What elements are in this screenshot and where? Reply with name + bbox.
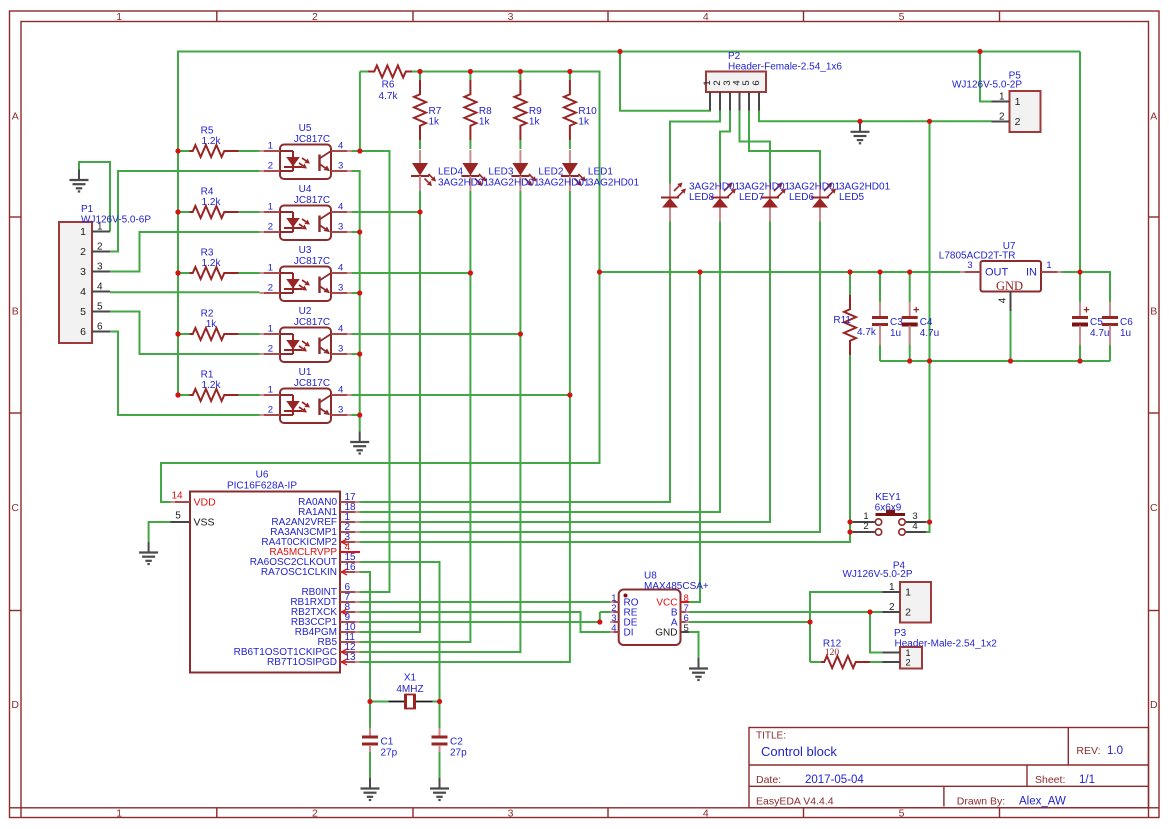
svg-text:REV:: REV:: [1076, 745, 1100, 757]
svg-text:1k: 1k: [578, 117, 590, 128]
svg-text:RA7OSC1CLKIN: RA7OSC1CLKIN: [261, 567, 337, 578]
svg-text:R4: R4: [201, 187, 214, 198]
svg-text:TITLE:: TITLE:: [756, 731, 786, 742]
svg-text:DI: DI: [624, 628, 634, 639]
svg-text:U6: U6: [256, 470, 269, 481]
svg-text:A: A: [12, 111, 19, 123]
svg-text:1: 1: [268, 263, 273, 274]
svg-text:U5: U5: [299, 123, 312, 134]
svg-text:R1: R1: [201, 370, 214, 381]
svg-text:5: 5: [684, 623, 689, 634]
svg-text:WJ126V-5.0-2P: WJ126V-5.0-2P: [952, 80, 1022, 91]
svg-text:1/1: 1/1: [1079, 774, 1095, 786]
svg-text:U4: U4: [299, 184, 312, 195]
svg-text:4: 4: [338, 263, 343, 274]
svg-text:2: 2: [905, 658, 910, 669]
svg-text:1k: 1k: [479, 117, 491, 128]
svg-text:VSS: VSS: [194, 517, 215, 529]
svg-text:JC817C: JC817C: [294, 317, 330, 328]
svg-text:3: 3: [97, 262, 103, 273]
svg-text:P2: P2: [728, 51, 741, 62]
svg-text:3AG2HD01: 3AG2HD01: [789, 182, 841, 193]
svg-text:MAX485CSA+: MAX485CSA+: [644, 581, 709, 592]
svg-text:B: B: [12, 306, 19, 318]
svg-text:R5: R5: [201, 126, 214, 137]
svg-text:4.7u: 4.7u: [1090, 328, 1109, 339]
svg-text:4MHZ: 4MHZ: [396, 684, 423, 695]
svg-text:1.2k: 1.2k: [202, 258, 222, 269]
svg-text:4: 4: [338, 385, 343, 396]
svg-text:X1: X1: [404, 673, 417, 684]
svg-text:P3: P3: [894, 628, 907, 639]
svg-text:1k: 1k: [429, 117, 441, 128]
svg-text:LED3: LED3: [488, 167, 513, 178]
svg-text:1u: 1u: [1120, 328, 1131, 339]
svg-text:5: 5: [80, 306, 86, 318]
svg-text:6: 6: [751, 80, 762, 85]
svg-text:2017-05-04: 2017-05-04: [805, 774, 864, 786]
svg-text:2: 2: [312, 807, 318, 819]
svg-text:C3: C3: [890, 317, 903, 328]
svg-text:LED7: LED7: [739, 192, 764, 203]
svg-text:1: 1: [268, 324, 273, 335]
svg-text:4.7k: 4.7k: [379, 91, 399, 102]
svg-text:3AG2HD01: 3AG2HD01: [839, 182, 891, 193]
svg-text:5: 5: [899, 11, 905, 23]
svg-text:Header-Female-2.54_1x6: Header-Female-2.54_1x6: [728, 62, 842, 73]
svg-text:GND: GND: [996, 279, 1023, 293]
svg-text:JC817C: JC817C: [294, 195, 330, 206]
svg-text:R11: R11: [833, 315, 851, 326]
svg-text:B: B: [1150, 306, 1157, 318]
svg-text:1.0: 1.0: [1107, 745, 1123, 757]
svg-text:3AG2HD01: 3AG2HD01: [438, 178, 490, 189]
svg-text:WJ126V-5.0-2P: WJ126V-5.0-2P: [842, 569, 912, 580]
svg-text:3: 3: [508, 807, 514, 819]
svg-text:120: 120: [825, 648, 840, 658]
svg-text:4: 4: [611, 623, 616, 634]
svg-text:D: D: [1150, 699, 1158, 711]
svg-text:2: 2: [863, 521, 868, 532]
svg-text:1: 1: [268, 385, 273, 396]
svg-text:JC817C: JC817C: [294, 256, 330, 267]
svg-text:1k: 1k: [529, 117, 541, 128]
svg-text:6x6x9: 6x6x9: [875, 503, 902, 514]
svg-text:U3: U3: [299, 245, 312, 256]
svg-text:3AG2HD01: 3AG2HD01: [488, 178, 540, 189]
svg-text:6: 6: [80, 326, 86, 338]
svg-text:Header-Male-2.54_1x2: Header-Male-2.54_1x2: [895, 639, 998, 650]
svg-text:14: 14: [171, 491, 183, 502]
svg-text:2: 2: [1015, 116, 1021, 128]
svg-text:1.2k: 1.2k: [202, 197, 222, 208]
svg-text:1.2k: 1.2k: [202, 136, 222, 147]
svg-text:VDD: VDD: [194, 497, 217, 509]
svg-text:1: 1: [268, 141, 273, 152]
svg-text:R10: R10: [578, 106, 597, 117]
svg-text:1: 1: [116, 11, 122, 23]
svg-text:3: 3: [338, 344, 343, 355]
svg-text:1: 1: [889, 582, 895, 593]
svg-text:C2: C2: [450, 737, 463, 748]
svg-text:U2: U2: [299, 306, 312, 317]
svg-text:1: 1: [1015, 96, 1021, 108]
svg-text:1: 1: [80, 226, 86, 238]
svg-text:GND: GND: [655, 628, 677, 639]
svg-text:LED2: LED2: [538, 167, 563, 178]
svg-text:L7805ACD2T-TR: L7805ACD2T-TR: [939, 251, 1016, 262]
svg-text:LED5: LED5: [839, 192, 864, 203]
svg-text:4: 4: [703, 11, 709, 23]
svg-text:2: 2: [268, 344, 273, 355]
svg-text:4: 4: [338, 202, 343, 213]
svg-text:2: 2: [268, 283, 273, 294]
svg-text:LED6: LED6: [789, 192, 814, 203]
svg-text:P1: P1: [81, 204, 94, 215]
svg-text:C5: C5: [1090, 317, 1103, 328]
svg-text:LED1: LED1: [588, 167, 613, 178]
svg-text:4: 4: [998, 297, 1009, 303]
svg-text:C4: C4: [920, 317, 933, 328]
svg-text:Drawn By:: Drawn By:: [957, 796, 1005, 808]
svg-text:1u: 1u: [890, 328, 901, 339]
svg-text:D: D: [11, 699, 19, 711]
svg-text:R8: R8: [479, 106, 492, 117]
svg-text:2: 2: [97, 242, 103, 253]
svg-text:U8: U8: [644, 571, 657, 582]
svg-text:3AG2HD01: 3AG2HD01: [739, 182, 791, 193]
svg-text:JC817C: JC817C: [294, 134, 330, 145]
svg-text:2: 2: [905, 607, 911, 619]
svg-text:C1: C1: [381, 737, 394, 748]
svg-text:U1: U1: [299, 367, 312, 378]
svg-text:2: 2: [268, 161, 273, 172]
svg-text:1: 1: [1046, 260, 1051, 271]
svg-text:IN: IN: [1026, 267, 1037, 279]
svg-text:OUT: OUT: [985, 267, 1009, 279]
svg-text:4.7k: 4.7k: [857, 327, 877, 338]
svg-text:R3: R3: [201, 248, 214, 259]
svg-text:3AG2HD01: 3AG2HD01: [538, 178, 590, 189]
svg-text:6: 6: [97, 322, 103, 333]
svg-text:1.2k: 1.2k: [202, 380, 222, 391]
svg-text:3: 3: [967, 260, 972, 271]
svg-text:5: 5: [899, 807, 905, 819]
svg-text:R6: R6: [382, 80, 395, 91]
svg-text:R2: R2: [201, 309, 214, 320]
svg-text:2: 2: [889, 602, 895, 613]
svg-text:C: C: [11, 502, 19, 514]
svg-text:3: 3: [508, 11, 514, 23]
svg-text:C: C: [1150, 502, 1158, 514]
svg-text:4: 4: [97, 282, 103, 293]
svg-text:1: 1: [905, 587, 911, 599]
svg-text:A: A: [1150, 111, 1157, 123]
svg-text:3: 3: [338, 283, 343, 294]
svg-text:4: 4: [80, 286, 86, 298]
svg-text:4: 4: [338, 141, 343, 152]
svg-text:4: 4: [338, 324, 343, 335]
svg-text:1k: 1k: [206, 319, 218, 330]
svg-text:4: 4: [703, 807, 709, 819]
svg-text:2: 2: [268, 405, 273, 416]
svg-text:1: 1: [116, 807, 122, 819]
svg-text:PIC16F628A-IP: PIC16F628A-IP: [227, 481, 297, 492]
svg-text:+: +: [1083, 305, 1089, 317]
svg-text:13: 13: [345, 652, 357, 663]
svg-text:16: 16: [345, 562, 357, 573]
svg-text:LED4: LED4: [438, 167, 463, 178]
svg-text:2: 2: [999, 112, 1005, 123]
svg-text:Date:: Date:: [756, 774, 781, 786]
svg-text:2: 2: [268, 222, 273, 233]
svg-text:Control block: Control block: [761, 744, 837, 759]
svg-text:27p: 27p: [381, 748, 398, 759]
svg-text:LED8: LED8: [689, 192, 714, 203]
svg-text:C6: C6: [1120, 317, 1133, 328]
svg-text:5: 5: [97, 302, 103, 313]
svg-text:1: 1: [268, 202, 273, 213]
svg-text:1: 1: [999, 92, 1005, 103]
svg-text:4: 4: [912, 521, 917, 532]
svg-text:+: +: [913, 305, 919, 317]
svg-text:3AG2HD01: 3AG2HD01: [689, 182, 741, 193]
svg-text:JC817C: JC817C: [294, 378, 330, 389]
svg-text:Sheet:: Sheet:: [1035, 774, 1065, 786]
svg-text:Alex_AW: Alex_AW: [1019, 796, 1066, 808]
svg-text:4.7u: 4.7u: [920, 328, 939, 339]
svg-text:R7: R7: [429, 106, 442, 117]
svg-text:5: 5: [175, 511, 181, 522]
svg-text:R9: R9: [529, 106, 542, 117]
svg-text:3: 3: [338, 161, 343, 172]
svg-text:WJ126V-5.0-6P: WJ126V-5.0-6P: [81, 215, 151, 226]
svg-text:RB7T1OSIPGD: RB7T1OSIPGD: [267, 657, 337, 668]
svg-text:3AG2HD01: 3AG2HD01: [588, 178, 640, 189]
svg-text:3: 3: [338, 405, 343, 416]
svg-text:2: 2: [80, 246, 86, 258]
svg-text:3: 3: [80, 266, 86, 278]
svg-text:KEY1: KEY1: [875, 492, 901, 503]
svg-text:27p: 27p: [450, 748, 467, 759]
svg-text:2: 2: [312, 11, 318, 23]
svg-text:EasyEDA V4.4.4: EasyEDA V4.4.4: [756, 796, 834, 808]
svg-text:3: 3: [338, 222, 343, 233]
